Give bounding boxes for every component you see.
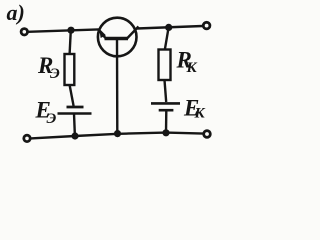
svg-text:К: К bbox=[186, 60, 198, 76]
battery E_К bbox=[151, 103, 180, 110]
resistor R_Э bbox=[65, 54, 75, 85]
node junction top-right bbox=[165, 24, 172, 31]
label R_К bbox=[176, 48, 198, 76]
node junction bottom E_К bbox=[162, 129, 169, 136]
wire R_Э to E_Э bbox=[70, 85, 74, 106]
battery E_Э bbox=[58, 107, 92, 114]
transistor base lead to rail bbox=[116, 40, 119, 134]
terminal bottom-right bbox=[204, 131, 211, 138]
svg-text:Э: Э bbox=[50, 66, 60, 82]
wire E_К to bottom rail bbox=[165, 110, 168, 133]
wire R_К to E_К bbox=[165, 80, 167, 102]
wire input to emitter bbox=[28, 29, 99, 31]
label R_Э bbox=[37, 53, 60, 82]
resistor R_К bbox=[159, 50, 171, 81]
svg-text:К: К bbox=[194, 106, 206, 122]
transistor base bar bbox=[105, 37, 129, 41]
wire junction to R_Э bbox=[70, 30, 71, 54]
terminal bottom-left bbox=[24, 135, 30, 141]
label E_К bbox=[183, 96, 206, 122]
terminal output-right bbox=[203, 22, 210, 29]
transistor collector lead bbox=[127, 27, 139, 39]
label а) bbox=[7, 0, 25, 25]
wire junction to R_К bbox=[165, 27, 169, 49]
terminal input-left bbox=[21, 29, 27, 35]
node junction top-left bbox=[67, 27, 74, 34]
transistor emitter with arrow bbox=[98, 28, 107, 39]
wire collector to output terminal bbox=[137, 26, 203, 29]
node junction bottom base bbox=[114, 130, 121, 137]
svg-text:а): а) bbox=[7, 0, 25, 25]
wire E_Э to bottom rail bbox=[73, 114, 76, 137]
label E_Э bbox=[35, 98, 57, 128]
transistor VT circle bbox=[98, 18, 137, 57]
node junction bottom E_Э bbox=[71, 132, 78, 139]
wire bottom rail bbox=[31, 133, 204, 139]
svg-text:Э: Э bbox=[47, 111, 57, 127]
